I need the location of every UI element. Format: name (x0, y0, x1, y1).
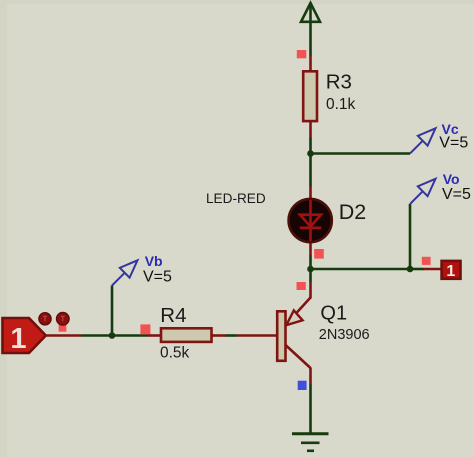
resistor R3 (303, 56, 317, 137)
ground (292, 434, 329, 451)
svg-text:1: 1 (446, 263, 455, 280)
svg-text:V=5: V=5 (439, 134, 468, 151)
svg-text:2N3906: 2N3906 (319, 327, 370, 343)
pin marker red input terminal (59, 325, 67, 332)
power symbol +V (301, 3, 320, 56)
pin marker blue Q1 collector (298, 381, 307, 390)
wire R4 to Q1 base (225, 334, 237, 337)
terminal output 1 (442, 261, 461, 279)
probe Vc (410, 128, 436, 153)
pin marker red output terminal (422, 257, 431, 265)
svg-text:Q1: Q1 (320, 303, 347, 325)
node junction input/R4/Vb (109, 332, 116, 339)
state dot 2 (57, 313, 70, 326)
svg-text:Vo: Vo (443, 171, 460, 187)
wire node to output terminal (410, 268, 424, 271)
wire node to Vb probe (111, 286, 114, 336)
svg-text:V=5: V=5 (143, 269, 172, 286)
probe Vo (410, 179, 436, 204)
node junction R3/LED/Vc (307, 150, 314, 157)
node junction LED/Q1/out (307, 266, 314, 273)
LED D2 (289, 187, 332, 256)
wire node to LED anode (309, 154, 312, 187)
svg-text:V=5: V=5 (442, 186, 471, 203)
wire node to Vo probe (409, 204, 412, 269)
svg-text:R3: R3 (326, 71, 352, 94)
svg-text:D2: D2 (339, 200, 366, 224)
wire node to out node (311, 268, 411, 271)
wire Q1 to ground (309, 384, 312, 434)
wire input terminal to node (46, 334, 81, 337)
svg-text:0.5k: 0.5k (160, 345, 190, 362)
pin marker red LED cathode (314, 249, 324, 259)
svg-text:Vb: Vb (145, 253, 163, 269)
svg-text:1: 1 (10, 323, 26, 355)
probe Vb (112, 260, 138, 285)
pin marker red R4 left (140, 324, 150, 334)
wire node to Q1 emitter (309, 269, 312, 283)
svg-text:0.1k: 0.1k (326, 96, 356, 113)
state dot 1 (39, 313, 51, 325)
pin marker red Q1 emitter (297, 282, 306, 290)
wire R3 to node Vc (309, 137, 312, 154)
resistor R4 (148, 328, 225, 342)
terminal input 1 (3, 318, 46, 353)
pin marker red R3 top (297, 50, 307, 58)
svg-text:LED-RED: LED-RED (206, 191, 266, 206)
svg-text:R4: R4 (160, 304, 186, 327)
transistor Q1 (237, 283, 311, 385)
wire LED to node (309, 255, 312, 269)
node junction out/Vo (407, 266, 414, 273)
wire node to Vc probe (311, 152, 411, 155)
